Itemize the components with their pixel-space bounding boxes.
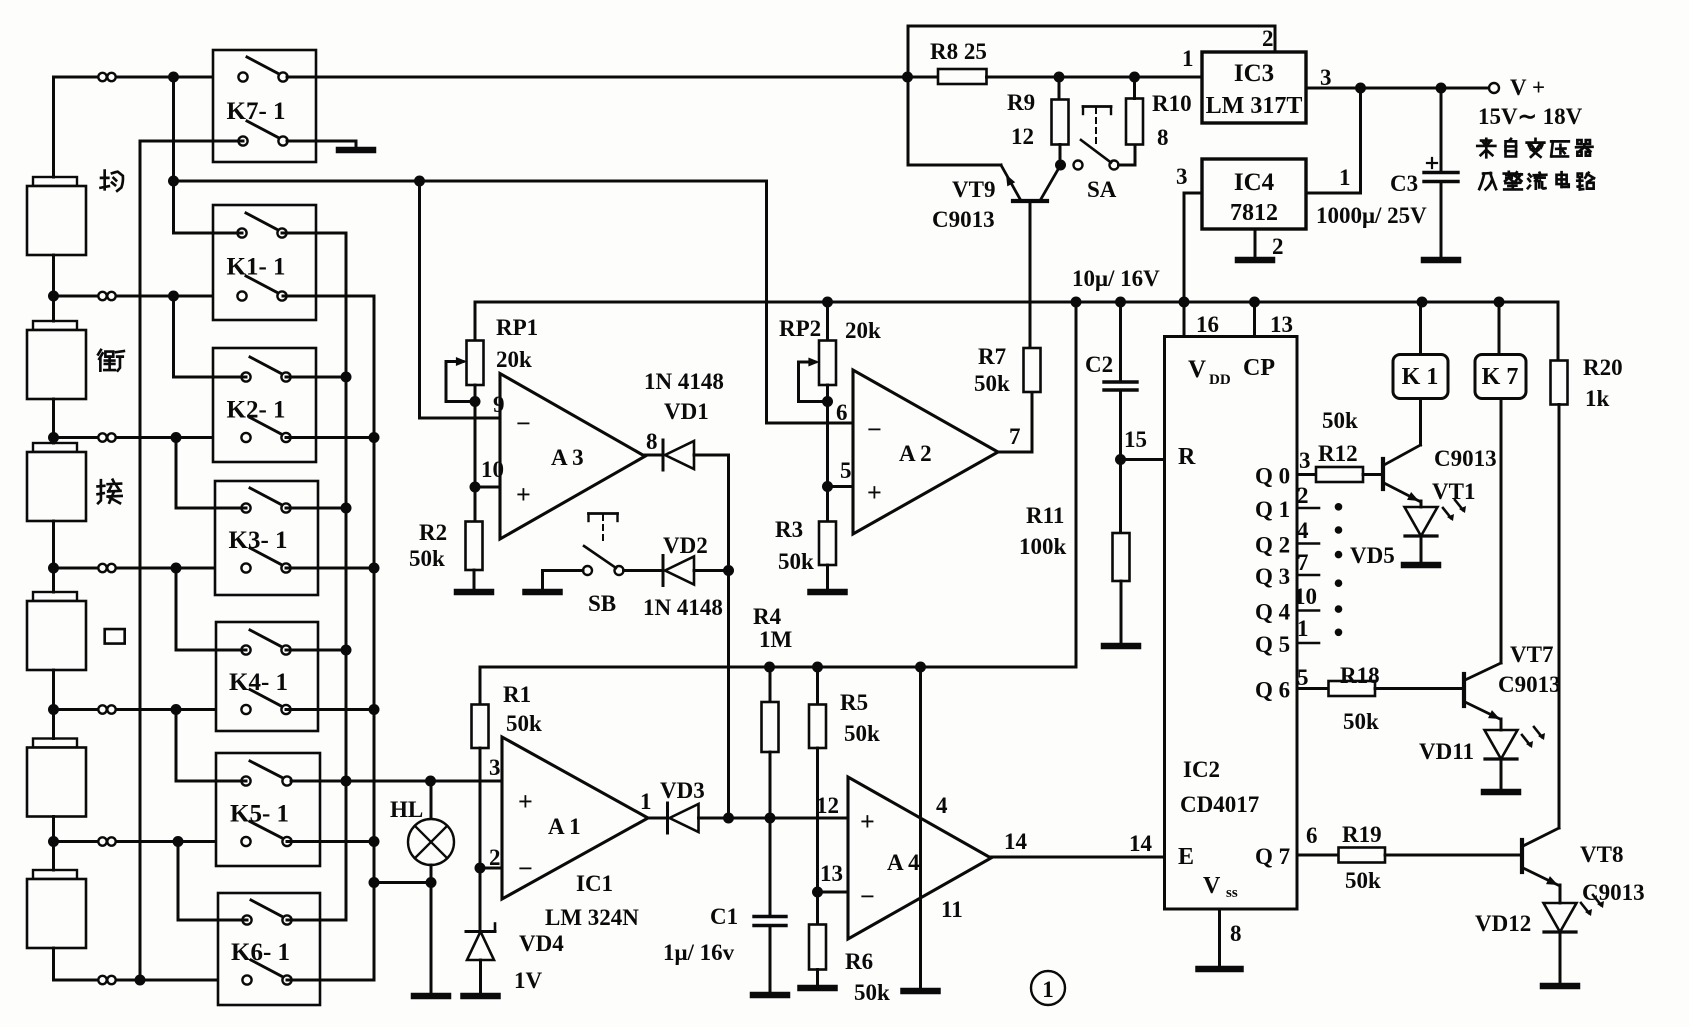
wire tap4 b <box>116 708 246 711</box>
junction x374 y=437.5 <box>369 432 380 443</box>
junction top bus / stub <box>168 72 179 83</box>
wire SB to VD2 <box>624 569 664 572</box>
resistor R11 <box>1113 533 1130 581</box>
arrow VT8 emitter <box>1546 876 1558 885</box>
wire RP2 wiper loop <box>799 362 828 402</box>
svg-text:A 3: A 3 <box>551 445 584 470</box>
wire VT8 emitter diagonal <box>1523 868 1558 885</box>
svg-text:8: 8 <box>1230 921 1242 946</box>
transistor VT1 <box>1381 459 1385 489</box>
svg-text:+: + <box>867 478 882 507</box>
battery cell B6 <box>33 870 77 879</box>
wire stub to K4-1 upper <box>176 568 246 650</box>
wire tap5 a <box>54 840 99 843</box>
svg-text:K1- 1: K1- 1 <box>227 254 286 281</box>
arrow VT7 emitter <box>1488 710 1500 719</box>
junction R4/C1 tap <box>765 813 776 824</box>
op-amp A4 <box>848 777 991 939</box>
svg-text:3: 3 <box>489 755 501 780</box>
wire A1 pin2 lead <box>480 867 502 870</box>
wire IC3 pin3 output V+ <box>1306 87 1489 90</box>
svg-text:R7: R7 <box>978 344 1006 369</box>
IC U3 LM317 <box>1202 52 1306 123</box>
svg-text:K5- 1: K5- 1 <box>230 800 289 827</box>
CJK char jun <box>101 171 123 191</box>
svg-text:VD2: VD2 <box>663 533 708 558</box>
svg-text:A 4: A 4 <box>887 850 920 875</box>
junction bus667 R5 top <box>812 662 823 673</box>
junction RP2 wiper tie <box>822 396 833 407</box>
svg-text:K4- 1: K4- 1 <box>229 669 288 696</box>
diode VD3 <box>666 803 669 833</box>
junction rail RP2 top <box>822 297 833 308</box>
svg-text:VD1: VD1 <box>664 399 709 424</box>
junction RP1 wiper tie <box>470 396 481 407</box>
junction stub y296 <box>168 291 179 302</box>
junction x374 y841 <box>369 836 380 847</box>
wire VD1 cathode down to A1 output node <box>694 455 729 818</box>
battery cell B1 <box>33 177 77 186</box>
wire tap1 b <box>116 295 243 298</box>
relay contact box K4-1 <box>216 622 318 731</box>
junction x346 y=377 <box>341 372 352 383</box>
svg-text:V: V <box>1203 873 1221 899</box>
wire tap0 a <box>54 76 99 79</box>
junction R9/SA/VT9 collector <box>1055 160 1066 171</box>
wire RP1 wiper loop <box>446 362 475 402</box>
wire A2 pin5 lead <box>828 485 854 488</box>
svg-text:16: 16 <box>1196 312 1219 337</box>
wire IC4 pin1 feed <box>1306 88 1361 193</box>
wire VT9 collector diagonal <box>1041 166 1060 199</box>
switch K7-1 upper contact <box>247 57 281 75</box>
CJK char zi <box>1506 139 1517 157</box>
wire A4 pin13 lead <box>818 891 849 894</box>
svg-text:Q 4: Q 4 <box>1255 600 1291 625</box>
wire A3 out to VD1 <box>645 454 663 457</box>
svg-text:7: 7 <box>1297 550 1309 575</box>
wire SA to R10 bottom <box>1119 145 1136 166</box>
junction x346 y=508 <box>341 503 352 514</box>
ground R3 <box>826 565 829 592</box>
svg-text:RP1: RP1 <box>496 315 538 340</box>
CJK char bian <box>1527 139 1545 157</box>
flash VD12 emission <box>1581 903 1589 913</box>
junction battery chain tap y=841.5 <box>48 836 59 847</box>
wire IC3 pin2 loop <box>908 26 1275 52</box>
svg-text:3: 3 <box>1299 448 1311 473</box>
ground IC4 pin2 <box>1254 229 1257 260</box>
wire bus to A3 pin9 <box>420 181 501 418</box>
capacitor C3 <box>1440 88 1443 171</box>
wire tap6 a <box>54 979 99 982</box>
CJK char ya <box>1551 141 1569 156</box>
svg-text:50k: 50k <box>1322 408 1358 433</box>
svg-text:A 2: A 2 <box>899 441 932 466</box>
svg-text:15V∼ 18V: 15V∼ 18V <box>1478 104 1583 129</box>
wire R19 to VT8 base <box>1385 854 1521 857</box>
svg-text:14: 14 <box>1129 831 1153 856</box>
IC2 output stubs Q1-Q5 <box>1297 507 1319 510</box>
capacitor C1 <box>769 818 772 916</box>
wire battery chain bottom <box>52 948 55 980</box>
svg-text:C3: C3 <box>1390 171 1418 196</box>
svg-text:5: 5 <box>1297 665 1309 690</box>
junction bus y181 pin9 drop <box>414 176 425 187</box>
svg-text:3: 3 <box>1320 65 1332 90</box>
wire tap2 a <box>54 436 99 439</box>
wire tap5 b <box>116 840 246 843</box>
svg-text:1N 4148: 1N 4148 <box>643 595 723 620</box>
junction pin5 tie <box>822 481 833 492</box>
relay contact box K3-1 <box>215 481 318 595</box>
relay coil K7 <box>1498 302 1501 355</box>
connector pair on tap line y=77 <box>98 73 106 81</box>
svg-text:K6- 1: K6- 1 <box>231 939 290 966</box>
svg-text:R1: R1 <box>503 682 531 707</box>
svg-text:R11: R11 <box>1026 503 1064 528</box>
svg-text:12: 12 <box>1011 124 1034 149</box>
svg-text:Q 2: Q 2 <box>1255 533 1290 558</box>
wire VT9 emitter return <box>908 26 1001 165</box>
svg-text:R9: R9 <box>1007 90 1035 115</box>
resistor R7 <box>1024 348 1041 392</box>
wire K upper contact to bus x346 y=650 <box>286 649 346 652</box>
figure number circled 1 <box>1031 971 1065 1005</box>
svg-text:15: 15 <box>1124 427 1147 452</box>
switch K5-1 lower contact <box>250 822 285 840</box>
junction C3 tap <box>1436 83 1447 94</box>
potentiometer RP1 <box>474 302 477 341</box>
svg-text:14: 14 <box>1004 829 1028 854</box>
svg-text:C9013: C9013 <box>1498 672 1561 697</box>
connector pair on tap line y=568 <box>98 564 106 572</box>
junction bus667 R4 top <box>764 662 775 673</box>
svg-text:1V: 1V <box>514 968 543 993</box>
wire tap3 a <box>54 567 99 570</box>
ground R6 <box>816 970 819 989</box>
junction R9 top <box>1054 72 1065 83</box>
resistor R8 body <box>938 69 987 84</box>
arrow VT9 emitter <box>1006 175 1015 187</box>
wire selected-cell line to A1 pin3 <box>291 780 502 783</box>
wire VT1 collector to K1 <box>1419 399 1422 446</box>
junction battery chain tap y=568 <box>48 563 59 574</box>
svg-text:VD3: VD3 <box>660 778 705 803</box>
svg-text:VT8: VT8 <box>1580 842 1623 867</box>
wire upper-contact bus x346 <box>282 233 346 920</box>
wire tap3 b <box>116 567 246 570</box>
wire lower-contact bus x374 <box>283 296 374 980</box>
svg-text:4: 4 <box>936 793 948 818</box>
svg-text:LM 317T: LM 317T <box>1206 93 1303 119</box>
svg-text:Q 5: Q 5 <box>1255 632 1290 657</box>
junction stub y709 <box>171 704 182 715</box>
svg-text:C1: C1 <box>710 904 738 929</box>
ground lamp HL <box>430 985 433 996</box>
svg-text:10μ/ 16V: 10μ/ 16V <box>1072 266 1160 291</box>
wire lamp to bottom junction <box>430 865 433 883</box>
switch SB <box>583 566 592 575</box>
wire IC2 pin16 stub <box>1183 302 1186 337</box>
potentiometer RP2 <box>826 302 829 341</box>
resistor R3 <box>819 522 836 566</box>
resistor R20 <box>1557 302 1560 361</box>
flash VD5 emission <box>1443 508 1451 518</box>
wire VD3 to A4 pin12 <box>699 817 849 820</box>
arrow RP1 wiper <box>456 357 467 366</box>
switch SA <box>1074 161 1083 170</box>
wire A4 output to IC2 pin14 <box>991 856 1165 859</box>
switch K2-1 upper contact <box>250 357 284 375</box>
junction battery chain tap y=296 <box>48 291 59 302</box>
svg-text:R12: R12 <box>1318 441 1358 466</box>
resistor R10 <box>1126 99 1143 145</box>
junction at A1 output line <box>723 813 734 824</box>
svg-text:VD12: VD12 <box>1475 911 1531 936</box>
junction A1 pin2 tie <box>475 863 486 874</box>
wire VT8 collector diagonal <box>1523 828 1559 846</box>
resistor R4 <box>769 667 772 702</box>
ground VD5 <box>1420 556 1423 565</box>
junction VD2 tie <box>723 565 734 576</box>
connector pair on tap line y=841.5 <box>98 837 106 845</box>
CJK char kou <box>105 629 125 644</box>
zener diode VD4 <box>466 930 495 933</box>
wire C2 to pin15/R11 <box>1119 390 1122 533</box>
svg-text:CD4017: CD4017 <box>1180 792 1259 817</box>
svg-text:Q 1: Q 1 <box>1255 497 1290 522</box>
wire top line K7-1 to R8 <box>287 76 938 79</box>
svg-text:100k: 100k <box>1019 534 1067 559</box>
svg-text:13: 13 <box>1270 312 1293 337</box>
svg-text:R6: R6 <box>845 949 873 974</box>
svg-text:20k: 20k <box>845 318 881 343</box>
junction rail IC2 pin13 <box>1249 297 1260 308</box>
svg-text:C9013: C9013 <box>1434 446 1497 471</box>
switch K3-1 upper contact <box>250 488 284 506</box>
ground VD11 <box>1500 783 1503 792</box>
svg-text:2: 2 <box>1262 26 1274 51</box>
wire A3 pin10 lead <box>475 486 500 489</box>
wire tap2 b <box>116 436 246 439</box>
svg-text:10: 10 <box>1294 584 1317 609</box>
wire battery chain seg2 <box>52 399 55 443</box>
svg-text:50k: 50k <box>844 721 880 746</box>
wire K5-1 lower to bus x374 <box>287 840 374 843</box>
switch K4-1 upper contact <box>250 630 284 648</box>
wire RP1 bottom to R2 <box>474 385 477 522</box>
wire Q7 pin6 lead <box>1297 854 1339 857</box>
diode VD1 <box>662 440 665 470</box>
connector pair on tap line y=709.5 <box>98 705 106 713</box>
ground SB <box>541 589 544 592</box>
switch K4-1 lower contact <box>250 690 284 708</box>
battery cell B5 <box>33 739 77 748</box>
arrow RP2 wiper <box>808 358 819 367</box>
svg-text:LM 324N: LM 324N <box>545 905 639 930</box>
wire Q0 pin3 lead <box>1297 473 1316 476</box>
wire IC2 pin13 stub <box>1253 302 1256 337</box>
svg-text:R4: R4 <box>753 604 782 629</box>
ground A4 pin11 <box>919 975 922 991</box>
svg-text:1: 1 <box>1339 165 1351 190</box>
wire battery chain seg5 <box>52 817 55 871</box>
switch K7-1 lower contact <box>247 121 281 139</box>
svg-text:13: 13 <box>820 861 843 886</box>
relay contact box K6-1 <box>218 893 320 1005</box>
wire tap6 b <box>116 979 247 982</box>
wire lamp junction to ground <box>430 883 433 994</box>
junction bus667 A4 supply <box>915 662 926 673</box>
svg-text:50k: 50k <box>506 711 542 736</box>
svg-text:50k: 50k <box>778 549 814 574</box>
wire RP2 bottom to R3 <box>826 385 829 522</box>
op-amp A1 <box>502 737 648 899</box>
svg-text:+: + <box>518 787 533 816</box>
connector pair on tap line y=980 <box>98 976 106 984</box>
switch K1-1 lower contact <box>246 276 280 294</box>
battery cell B2 <box>33 321 77 330</box>
svg-text:2: 2 <box>489 845 501 870</box>
svg-text:VT9: VT9 <box>952 177 995 202</box>
svg-text:K7- 1: K7- 1 <box>227 98 286 125</box>
op-amp A3 <box>500 374 645 540</box>
svg-text:K2- 1: K2- 1 <box>227 396 286 423</box>
svg-text:3: 3 <box>1176 164 1188 189</box>
wire stub to K3-1 upper <box>176 438 246 509</box>
transistor VT9 <box>1013 199 1047 203</box>
wire battery chain top <box>52 77 55 177</box>
wire VT7 collector diagonal <box>1465 663 1501 680</box>
transistor VT7 <box>1462 674 1466 706</box>
CJK char ji <box>1479 173 1496 189</box>
svg-text:6: 6 <box>836 400 848 425</box>
wire tap0 b <box>116 76 243 79</box>
junction x374 y=568 <box>369 563 380 574</box>
wire VT7 emitter diagonal <box>1465 702 1500 719</box>
svg-text:1: 1 <box>1042 977 1054 1002</box>
CJK char heng <box>98 350 124 371</box>
wire K lower contact to bus x374 y=437.5 <box>286 436 374 439</box>
junction x374 lamp tap <box>369 877 380 888</box>
svg-text:1: 1 <box>640 789 652 814</box>
diode VD2 <box>662 556 665 586</box>
flash VD11 emission <box>1522 735 1530 745</box>
svg-text:C9013: C9013 <box>1582 880 1645 905</box>
wire R5 to pin13 node <box>816 748 819 892</box>
relay contact box K1-1 <box>213 205 316 320</box>
junction pin15 node <box>1115 454 1126 465</box>
svg-text:K3- 1: K3- 1 <box>229 527 288 554</box>
svg-text:IC4: IC4 <box>1234 169 1275 196</box>
svg-text:DD: DD <box>1209 372 1231 388</box>
junction x346 y=650 <box>341 645 352 656</box>
wire VD2 to junction <box>694 569 729 572</box>
wire Q6 pin5 lead <box>1297 687 1329 690</box>
ground IC2 pin8 <box>1218 909 1221 969</box>
IC U4 7812 <box>1202 159 1306 229</box>
svg-text:R3: R3 <box>775 517 803 542</box>
junction rail IC2 pin16 <box>1179 297 1190 308</box>
junction lamp bottom <box>426 877 437 888</box>
svg-text:7812: 7812 <box>1230 200 1278 226</box>
svg-text:10: 10 <box>481 457 504 482</box>
wire K upper contact to bus x346 y=508 <box>286 507 346 510</box>
wire tap1 a <box>54 295 99 298</box>
wire K7-1 lower-left lead <box>140 140 243 143</box>
svg-text:C9013: C9013 <box>932 207 995 232</box>
svg-text:RP2: RP2 <box>779 316 821 341</box>
svg-text:1000μ/ 25V: 1000μ/ 25V <box>1316 203 1427 228</box>
svg-text:1: 1 <box>1297 616 1309 641</box>
svg-text:Q 0: Q 0 <box>1255 464 1290 489</box>
junction stub y568 <box>171 563 182 574</box>
svg-text:7: 7 <box>1009 424 1021 449</box>
svg-text:Q 3: Q 3 <box>1255 564 1290 589</box>
wire stub to K2-1 upper <box>174 296 247 377</box>
wire R4 bottom <box>769 752 772 818</box>
wire reference bus y181 <box>174 180 767 183</box>
svg-text:1: 1 <box>1182 46 1194 71</box>
wire bus y181 to A2 pin6 <box>767 181 854 423</box>
svg-text:5: 5 <box>840 458 852 483</box>
svg-text:R19: R19 <box>1342 822 1382 847</box>
junction IC4 pin1 tap <box>1355 83 1366 94</box>
svg-text:ss: ss <box>1226 885 1238 901</box>
wire K7-1 lower-right to ground <box>287 140 356 143</box>
ground K7-1 common <box>355 141 358 150</box>
relay contact box K7-1 <box>213 50 316 162</box>
ellipsis dots for unshown stages <box>1335 503 1343 511</box>
junction VT9 branch on input line <box>902 72 913 83</box>
svg-text:50k: 50k <box>1345 868 1381 893</box>
connector pair on tap line y=437.5 <box>98 433 106 441</box>
wire battery chain seg3 <box>52 521 55 592</box>
wire bus x374 to lamp bottom <box>374 881 431 884</box>
svg-text:20k: 20k <box>496 347 532 372</box>
svg-text:1k: 1k <box>1585 386 1610 411</box>
wire K lower contact to bus x374 y=709.5 <box>286 708 374 711</box>
junction bus x140 bottom <box>135 975 146 986</box>
svg-text:11: 11 <box>941 897 963 922</box>
wire VT9 base down to R7 <box>1029 201 1032 348</box>
wire 12V rail <box>475 301 1558 304</box>
svg-text:8: 8 <box>1157 125 1169 150</box>
svg-text:VT1: VT1 <box>1432 479 1475 504</box>
resistor R2 <box>466 522 483 571</box>
junction lamp top tap <box>425 776 436 787</box>
wire R18 to VT7 base <box>1375 687 1463 690</box>
junction A4 pin13 <box>812 887 823 898</box>
svg-text:A 1: A 1 <box>548 814 581 839</box>
CJK char jie <box>98 480 122 504</box>
svg-text:IC3: IC3 <box>1234 60 1274 87</box>
svg-text:−: − <box>860 882 875 911</box>
svg-text:Q 6: Q 6 <box>1255 678 1290 703</box>
wire mid reference bus y667 <box>480 666 1076 669</box>
wire stub to K5-1 upper <box>176 710 246 782</box>
resistor R1 <box>479 667 482 705</box>
svg-text:V +: V + <box>1510 75 1545 100</box>
svg-text:9: 9 <box>493 392 505 417</box>
svg-text:IC1: IC1 <box>576 871 613 896</box>
svg-text:1M: 1M <box>759 627 793 652</box>
wire R1 to VD4 / pin2 node <box>479 748 482 932</box>
svg-text:+: + <box>860 807 875 836</box>
lamp HL <box>430 781 433 819</box>
wire VT1 emitter diagonal <box>1384 483 1419 501</box>
